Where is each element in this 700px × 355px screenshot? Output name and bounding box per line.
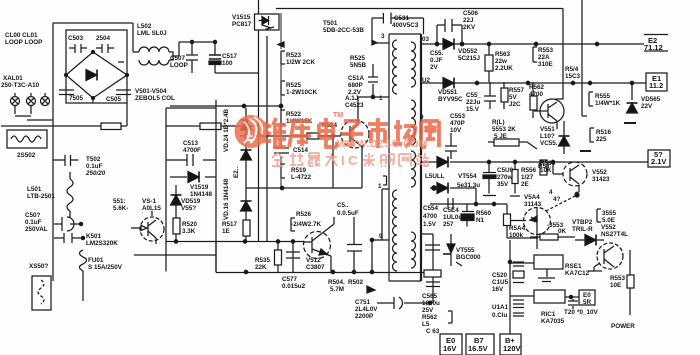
svg-text:0.1uF: 0.1uF <box>86 163 103 170</box>
svg-text:2.1V: 2.1V <box>651 157 666 166</box>
svg-text:2KV: 2KV <box>463 24 476 31</box>
svg-text:2.2UK: 2.2UK <box>495 65 513 72</box>
svg-text:100: 100 <box>222 60 233 67</box>
svg-text:VT555: VT555 <box>456 247 475 254</box>
svg-text:XS50?: XS50? <box>29 263 48 270</box>
svg-text:250-T3C-A10: 250-T3C-A10 <box>1 82 40 89</box>
svg-text:C505: C505 <box>106 96 122 103</box>
svg-text:LTB-2501: LTB-2501 <box>27 193 55 200</box>
svg-text:5 JE: 5 JE <box>494 133 507 140</box>
svg-text:250/20: 250/20 <box>85 170 106 177</box>
svg-text:C553: C553 <box>450 113 466 120</box>
svg-text:L502: L502 <box>137 23 152 30</box>
svg-text:VC55.: VC55. <box>540 140 558 147</box>
svg-text:R560: R560 <box>476 210 492 217</box>
svg-text:5C215J: 5C215J <box>458 55 481 62</box>
svg-text:22V: 22V <box>641 103 653 110</box>
svg-text:VS-1: VS-1 <box>142 198 156 205</box>
svg-text:LOOP: LOOP <box>170 62 188 69</box>
svg-text:KA7C12: KA7C12 <box>565 270 590 277</box>
svg-text:C507: C507 <box>170 55 186 62</box>
svg-text:R555: R555 <box>595 93 611 100</box>
svg-text:5R: 5R <box>583 299 592 306</box>
svg-text:VD.24 1B*2.4B: VD.24 1B*2.4B <box>223 108 230 152</box>
svg-text:TM: TM <box>333 112 343 119</box>
svg-text:71.12: 71.12 <box>644 43 663 52</box>
svg-text:R562: R562 <box>529 84 545 91</box>
svg-text:5DB-2CC-53B: 5DB-2CC-53B <box>323 27 364 34</box>
svg-text:*0_10V: *0_10V <box>577 309 598 316</box>
svg-text:R522: R522 <box>286 111 302 118</box>
svg-text:VD565: VD565 <box>641 96 661 103</box>
svg-text:31423: 31423 <box>592 176 610 183</box>
svg-text:C55.: C55. <box>430 50 444 57</box>
svg-text:0K: 0K <box>558 228 567 235</box>
svg-text:0.JF: 0.JF <box>430 57 443 64</box>
svg-text:VD552: VD552 <box>458 48 478 55</box>
svg-text:VT554: VT554 <box>458 173 477 180</box>
svg-text:LML SL0J: LML SL0J <box>137 30 167 37</box>
svg-text:V55?: V55? <box>181 205 196 212</box>
svg-text:22Ju: 22Ju <box>466 99 481 106</box>
svg-text:35V: 35V <box>497 181 509 188</box>
svg-text:2E: 2E <box>521 181 529 188</box>
svg-text:L5: L5 <box>422 321 430 328</box>
svg-text:1/2W 2CK: 1/2W 2CK <box>286 59 315 66</box>
svg-text:L501: L501 <box>27 186 42 193</box>
svg-text:5.7M: 5.7M <box>330 286 344 293</box>
svg-text:100k: 100k <box>509 232 524 239</box>
svg-text:V501-V504: V501-V504 <box>135 88 167 95</box>
svg-text:R520: R520 <box>182 221 198 228</box>
svg-text:VD519: VD519 <box>181 198 201 205</box>
svg-text:5.6K-: 5.6K- <box>113 205 128 212</box>
svg-text:5.0E: 5.0E <box>602 217 615 224</box>
svg-text:225: 225 <box>596 136 607 143</box>
svg-text:C51A: C51A <box>348 75 365 82</box>
svg-text:V552: V552 <box>601 224 616 231</box>
svg-text:16V: 16V <box>492 286 504 293</box>
svg-text:2S502: 2S502 <box>17 152 36 159</box>
svg-text:C5..: C5.. <box>337 202 349 209</box>
svg-text:CL00 CL01: CL00 CL01 <box>5 32 38 39</box>
svg-text:L5ULL: L5ULL <box>425 173 445 180</box>
svg-text:C: C <box>348 153 358 168</box>
svg-text:5553 2K: 5553 2K <box>492 126 516 133</box>
svg-text:C1U5: C1U5 <box>492 279 509 286</box>
svg-text:4700: 4700 <box>423 213 438 220</box>
svg-text:22A: 22A <box>538 54 550 61</box>
svg-text:5N5B: 5N5B <box>350 62 367 69</box>
svg-text:4?: 4? <box>553 196 561 203</box>
svg-text:22J: 22J <box>463 17 474 24</box>
svg-text:C4523: C4523 <box>345 102 364 109</box>
svg-text:16.5V: 16.5V <box>468 344 488 353</box>
svg-text:680P: 680P <box>348 82 363 89</box>
svg-text:R516: R516 <box>596 129 612 136</box>
svg-text:J2C: J2C <box>509 101 521 108</box>
svg-text:C3807: C3807 <box>306 264 325 271</box>
svg-text:120V: 120V <box>503 344 521 353</box>
svg-text:R5/4: R5/4 <box>565 66 579 73</box>
svg-text:1-2W10CK: 1-2W10CK <box>286 89 318 96</box>
svg-text:310E: 310E <box>538 61 553 68</box>
svg-text:R557: R557 <box>509 87 525 94</box>
svg-text:T501: T501 <box>323 20 338 27</box>
svg-text:22K: 22K <box>255 264 267 271</box>
svg-text:POWER: POWER <box>611 323 635 330</box>
svg-text:KA7035: KA7035 <box>541 318 565 325</box>
svg-text:C531: C531 <box>394 15 410 22</box>
svg-text:10V: 10V <box>450 127 462 134</box>
svg-text:2200P: 2200P <box>355 313 373 320</box>
svg-text:4700: 4700 <box>529 91 544 98</box>
svg-text:10E: 10E <box>610 282 621 289</box>
svg-text:V551: V551 <box>540 126 555 133</box>
svg-text:257: 257 <box>443 221 454 228</box>
svg-text:K501: K501 <box>86 233 102 240</box>
svg-text:2V: 2V <box>430 64 439 71</box>
svg-text:R556: R556 <box>521 167 537 174</box>
svg-text:R504.: R504. <box>328 279 345 286</box>
svg-text:I: I <box>341 153 345 168</box>
svg-text:0.1uF: 0.1uF <box>25 219 42 226</box>
svg-text:15C3: 15C3 <box>565 73 581 80</box>
svg-text:4700F: 4700F <box>183 147 201 154</box>
svg-text:R562: R562 <box>422 314 438 321</box>
svg-text:U1A1: U1A1 <box>492 304 509 311</box>
svg-text:C513: C513 <box>183 140 199 147</box>
svg-text:V1519: V1519 <box>190 184 209 191</box>
svg-text:1: 1 <box>378 183 382 190</box>
svg-text:R525: R525 <box>286 82 302 89</box>
svg-text:ZEBOL5 COL: ZEBOL5 COL <box>135 95 175 102</box>
svg-text:TRIL-R: TRIL-R <box>572 226 593 233</box>
svg-text:270w: 270w <box>497 174 513 181</box>
svg-text:C565: C565 <box>422 293 438 300</box>
svg-text:A0L15: A0L15 <box>142 205 161 212</box>
svg-text:1UL0u: 1UL0u <box>443 214 462 221</box>
svg-text:3555: 3555 <box>602 210 617 217</box>
svg-text:C 63: C 63 <box>426 328 440 335</box>
svg-text:R526: R526 <box>296 211 312 218</box>
svg-text:NS27T4L: NS27T4L <box>601 231 628 238</box>
svg-text:V512: V512 <box>306 257 321 264</box>
svg-text:R519: R519 <box>291 167 307 174</box>
svg-text:11.2: 11.2 <box>649 81 663 90</box>
svg-text:XAL01: XAL01 <box>3 75 23 82</box>
svg-text:C506: C506 <box>463 10 479 17</box>
svg-text:RIC1: RIC1 <box>541 311 556 318</box>
svg-text:3: 3 <box>381 33 385 40</box>
svg-text:BYV95C: BYV95C <box>438 96 463 103</box>
svg-text:U2: U2 <box>422 77 431 84</box>
svg-text:C751: C751 <box>355 299 371 306</box>
svg-text:LOOP LOOP: LOOP LOOP <box>5 39 42 46</box>
svg-text:VD551: VD551 <box>438 89 458 96</box>
svg-text:V5A4: V5A4 <box>524 194 540 201</box>
svg-text:03: 03 <box>422 36 430 43</box>
svg-text:1/4W*1K: 1/4W*1K <box>595 100 621 107</box>
svg-text:0.Clu: 0.Clu <box>492 312 508 319</box>
svg-text:C5U0: C5U0 <box>497 167 514 174</box>
svg-text:V1515: V1515 <box>232 14 251 21</box>
svg-text:VTBP2: VTBP2 <box>572 219 593 226</box>
svg-text:C50?: C50? <box>25 212 41 219</box>
svg-text:T502: T502 <box>86 156 101 163</box>
svg-text:S 15A/250V: S 15A/250V <box>88 264 123 271</box>
svg-text:551:: 551: <box>113 198 126 205</box>
svg-text:9: 9 <box>379 233 383 240</box>
svg-text:BGC000: BGC000 <box>456 254 481 261</box>
svg-text:R502: R502 <box>348 279 364 286</box>
svg-text:VD.16 1N4148: VD.16 1N4148 <box>223 178 230 220</box>
svg-text:RSE1: RSE1 <box>565 263 582 270</box>
svg-text:1N4148: 1N4148 <box>190 191 213 198</box>
svg-text:C577: C577 <box>282 276 298 283</box>
svg-text:N1: N1 <box>476 217 485 224</box>
svg-text:C520: C520 <box>492 272 508 279</box>
svg-text:400V5C3: 400V5C3 <box>392 22 419 29</box>
svg-text:WWW.DZSC.COM: WWW.DZSC.COM <box>337 139 428 150</box>
svg-text:7505: 7505 <box>69 95 84 102</box>
svg-text:LM2S320K: LM2S320K <box>86 240 118 247</box>
svg-text:PC817: PC817 <box>232 21 252 28</box>
svg-text:T20: T20 <box>564 309 575 316</box>
svg-text:V552: V552 <box>592 169 607 176</box>
svg-text:1E: 1E <box>222 228 230 235</box>
svg-text:1: 1 <box>379 95 383 102</box>
svg-text:25V: 25V <box>422 307 434 314</box>
svg-text:C554: C554 <box>423 205 439 212</box>
svg-text:16V: 16V <box>443 344 456 353</box>
svg-text:A.1J: A.1J <box>345 95 359 102</box>
svg-text:R553: R553 <box>538 47 554 54</box>
svg-text:250VAL: 250VAL <box>25 226 48 233</box>
svg-text:R525: R525 <box>350 55 366 62</box>
svg-text:5e31.3u: 5e31.3u <box>457 182 480 189</box>
svg-text:L-4722: L-4722 <box>291 174 311 181</box>
svg-text:C514: C514 <box>293 147 309 154</box>
svg-text:C517: C517 <box>222 53 238 60</box>
svg-text:C5E4: C5E4 <box>443 207 459 214</box>
svg-text:0.0.5uF: 0.0.5uF <box>337 210 359 217</box>
svg-text:R58: R58 <box>538 163 550 170</box>
svg-text:R5A4: R5A4 <box>509 225 526 232</box>
svg-text:0.015u2: 0.015u2 <box>282 283 306 290</box>
svg-text:4: 4 <box>549 189 553 196</box>
svg-text:2.2V: 2.2V <box>348 89 362 96</box>
svg-text:15.V: 15.V <box>466 106 480 113</box>
svg-text:-2/4W2.7K: -2/4W2.7K <box>291 221 322 228</box>
svg-text:L10?: L10? <box>540 133 555 140</box>
svg-text:22w: 22w <box>495 58 507 65</box>
svg-text:1.5V: 1.5V <box>423 221 437 228</box>
svg-text:E0: E0 <box>583 292 591 299</box>
svg-text:R523: R523 <box>286 52 302 59</box>
svg-text:R553: R553 <box>610 275 626 282</box>
svg-text:5V: 5V <box>509 94 518 101</box>
svg-text:E2..: E2.. <box>233 167 240 178</box>
svg-text:2504: 2504 <box>96 35 111 42</box>
svg-text:31143: 31143 <box>524 201 542 208</box>
svg-text:R563: R563 <box>495 51 511 58</box>
svg-text:C503: C503 <box>68 35 84 42</box>
svg-text:C55_: C55_ <box>466 92 482 99</box>
svg-text:R535: R535 <box>255 257 271 264</box>
svg-text:3.3K: 3.3K <box>182 228 196 235</box>
svg-text:R(L): R(L) <box>492 119 505 126</box>
svg-text:2L4L0V: 2L4L0V <box>355 306 378 313</box>
svg-text:470P: 470P <box>450 120 465 127</box>
svg-text:1000u: 1000u <box>422 300 440 307</box>
svg-text:1/27: 1/27 <box>521 174 534 181</box>
svg-text:FU01: FU01 <box>88 257 104 264</box>
svg-text:R517: R517 <box>222 221 238 228</box>
